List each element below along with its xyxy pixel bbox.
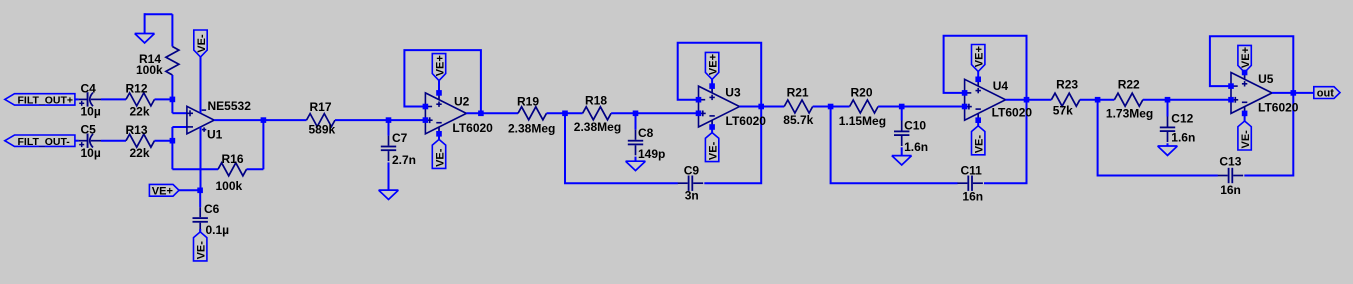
svg-text:R20: R20 — [851, 85, 873, 99]
svg-text:85.7k: 85.7k — [783, 113, 813, 127]
wire — [214, 119, 306, 121]
svg-text:1.6n: 1.6n — [1171, 131, 1195, 145]
svg-text:R17: R17 — [310, 100, 332, 114]
net flag FILT_OUT- — [5, 135, 75, 148]
label LT6020 (U4) — [992, 106, 1033, 120]
wire U4 feedback loop — [944, 36, 1027, 100]
ground — [1158, 146, 1178, 155]
C10 node junction — [899, 104, 905, 110]
wire — [172, 112, 187, 114]
svg-text:R18: R18 — [585, 94, 607, 108]
op-amp U5 LT6020 — [1231, 72, 1274, 114]
svg-text:1.6n: 1.6n — [904, 140, 928, 154]
wire — [977, 72, 979, 80]
wire — [155, 98, 173, 100]
net flag VE- (below U5) — [1238, 121, 1252, 150]
ground — [892, 156, 912, 165]
svg-text:FILT_OUT+: FILT_OUT+ — [18, 95, 74, 107]
wire C13 feedback loop (right) — [1244, 93, 1293, 176]
svg-text:R12: R12 — [126, 82, 148, 96]
svg-text:589k: 589k — [309, 123, 336, 137]
svg-text:C9: C9 — [684, 164, 700, 178]
capacitor C7 — [381, 131, 416, 167]
svg-text:R21: R21 — [787, 85, 809, 99]
U2 in+ pin junction — [423, 117, 429, 123]
wire U2 feedback loop — [404, 50, 481, 113]
wire — [200, 127, 202, 190]
capacitor C4 — [79, 81, 101, 118]
node R21/R20 junction — [828, 104, 834, 110]
svg-text:1.73Meg: 1.73Meg — [1106, 106, 1153, 120]
svg-text:10µ: 10µ — [81, 105, 101, 119]
resistor R12 — [126, 82, 155, 119]
resistor R23 — [1051, 77, 1080, 117]
resistor R17 — [307, 100, 336, 137]
net flag VE+ (above U3) — [705, 52, 719, 79]
wire — [466, 112, 518, 114]
svg-text:U5: U5 — [1258, 72, 1274, 86]
wire — [101, 140, 126, 142]
capacitor C12 — [1160, 112, 1196, 145]
wire C11 feedback loop (left) — [831, 107, 958, 184]
wire — [1244, 113, 1246, 121]
wire — [878, 106, 965, 108]
svg-text:100k: 100k — [216, 179, 243, 193]
wire C11 feedback loop (right) — [984, 100, 1027, 184]
wire U3 feedback loop — [678, 43, 762, 107]
svg-text:1.15Meg: 1.15Meg — [839, 114, 886, 128]
U4 in+ pin junction — [962, 104, 968, 110]
svg-text:16n: 16n — [962, 190, 983, 204]
svg-text:VE-: VE- — [1240, 130, 1252, 149]
label LT6020 (U3) — [726, 114, 767, 128]
label LT6020 (U2) — [452, 121, 493, 135]
svg-text:R23: R23 — [1056, 77, 1078, 91]
wire — [438, 134, 440, 140]
ground — [626, 161, 646, 170]
svg-text:C4: C4 — [81, 81, 97, 95]
U3 V+ pin junction — [709, 83, 715, 89]
svg-text:10µ: 10µ — [81, 146, 101, 160]
wire — [172, 126, 187, 128]
wire C9 feedback loop (left) — [565, 113, 678, 183]
net flag VE- (below U3) — [705, 133, 719, 162]
wire — [388, 120, 390, 136]
svg-text:R16: R16 — [222, 152, 244, 166]
wire — [977, 120, 979, 126]
C8 node junction — [633, 111, 639, 117]
net flag VE+ — [149, 184, 179, 197]
svg-text:VE+: VE+ — [152, 185, 173, 197]
node R23/R22 junction — [1095, 97, 1101, 103]
wire — [1006, 99, 1052, 101]
wire — [1167, 100, 1169, 117]
U3 in- pin junction — [696, 97, 702, 103]
svg-text:VE-: VE- — [708, 141, 720, 160]
wire — [711, 79, 713, 86]
U5 output junction — [1291, 90, 1297, 96]
U2 V- pin junction — [436, 131, 442, 137]
svg-text:VE-: VE- — [196, 241, 208, 260]
node R19/R18 junction — [562, 111, 568, 117]
wire — [145, 13, 173, 15]
net flag VE+ (above U2) — [432, 54, 446, 81]
svg-text:C12: C12 — [1171, 112, 1193, 126]
wire U5 feedback loop — [1210, 36, 1293, 93]
svg-text:VE+: VE+ — [1240, 47, 1252, 68]
svg-text:VE-: VE- — [974, 135, 986, 154]
capacitor C8 — [628, 126, 666, 161]
U5 V- pin junction — [1242, 111, 1248, 117]
svg-text:C6: C6 — [204, 202, 220, 216]
svg-text:U3: U3 — [725, 85, 741, 99]
svg-text:U2: U2 — [454, 95, 470, 109]
svg-text:C10: C10 — [904, 119, 926, 133]
net flag FILT_OUT+ — [5, 94, 75, 107]
resistor R13 — [126, 123, 155, 160]
wire — [1080, 99, 1115, 101]
svg-text:C11: C11 — [961, 163, 983, 177]
resistor R14 — [136, 47, 179, 78]
wire — [635, 113, 637, 130]
wire — [75, 98, 79, 100]
svg-text:3n: 3n — [685, 189, 699, 203]
svg-text:0.1µ: 0.1µ — [206, 223, 230, 237]
capacitor C5 — [79, 122, 101, 159]
op-amp U1 NE5532 — [187, 99, 251, 142]
wire — [172, 168, 218, 170]
wire — [262, 120, 264, 169]
wire — [101, 98, 126, 100]
capacitor C6 — [193, 202, 230, 237]
wire — [547, 112, 583, 114]
ground — [135, 34, 155, 43]
U3 V- pin junction — [709, 124, 715, 130]
wire — [171, 141, 173, 170]
wire — [388, 162, 390, 190]
net flag VE+ (above U5) — [1238, 45, 1252, 72]
wire C13 feedback loop (left) — [1098, 100, 1218, 176]
svg-text:LT6020: LT6020 — [1258, 100, 1299, 114]
svg-text:100k: 100k — [136, 63, 163, 77]
ground — [379, 190, 399, 199]
net flag VE+ (above U4) — [972, 45, 986, 72]
svg-text:VE+: VE+ — [434, 55, 446, 76]
wire — [247, 168, 264, 170]
capacitor C11 — [957, 163, 983, 203]
svg-text:22k: 22k — [130, 105, 150, 119]
U4 V+ pin junction — [975, 77, 981, 83]
op-amp U2 LT6020 — [425, 93, 469, 134]
U2 in- pin junction — [423, 104, 429, 110]
svg-text:2.38Meg: 2.38Meg — [574, 120, 621, 134]
svg-text:C8: C8 — [638, 126, 654, 140]
op-amp U3 LT6020 — [699, 85, 741, 127]
wire — [171, 127, 173, 141]
node A junction — [170, 97, 176, 103]
wire — [438, 81, 440, 93]
wire — [144, 13, 146, 33]
wire C9 feedback loop (right) — [704, 107, 761, 184]
U4 in- pin junction — [962, 90, 968, 96]
svg-text:NE5532: NE5532 — [208, 99, 252, 113]
wire — [155, 140, 173, 142]
U2 output junction — [478, 111, 484, 117]
U3 output junction — [758, 104, 764, 110]
C12 node junction — [1165, 97, 1171, 103]
U3 in+ pin junction — [696, 111, 702, 117]
svg-text:R22: R22 — [1118, 77, 1140, 91]
svg-text:57k: 57k — [1053, 103, 1073, 117]
wire — [901, 107, 903, 121]
wire — [711, 127, 713, 133]
wire — [740, 106, 785, 108]
wire — [171, 75, 173, 99]
svg-text:R19: R19 — [517, 94, 539, 108]
VE+ node junction — [197, 188, 203, 194]
wire — [1143, 99, 1231, 101]
svg-text:LT6020: LT6020 — [726, 114, 767, 128]
capacitor C10 — [894, 119, 928, 154]
wire — [901, 147, 903, 155]
svg-text:C7: C7 — [392, 131, 408, 145]
wire — [335, 119, 389, 121]
U4 output junction — [1024, 97, 1030, 103]
U4 V- pin junction — [975, 117, 981, 123]
resistor R20 — [839, 85, 886, 128]
wire — [179, 189, 200, 191]
U2 V+ pin junction — [436, 90, 442, 96]
capacitor C9 — [678, 164, 704, 203]
svg-text:VE+: VE+ — [974, 46, 986, 67]
svg-text:VE+: VE+ — [708, 54, 720, 75]
net flag VE- (below C6) — [194, 232, 208, 261]
wire — [1167, 143, 1169, 146]
wire — [813, 106, 850, 108]
C7 node junction — [386, 117, 392, 123]
wire — [635, 157, 637, 162]
svg-text:out: out — [1317, 88, 1334, 100]
net flag out — [1314, 87, 1340, 100]
svg-text:VE-: VE- — [196, 34, 208, 53]
wire — [200, 57, 202, 113]
capacitor C13 — [1218, 155, 1244, 197]
op-amp U4 LT6020 — [965, 79, 1009, 120]
svg-text:22k: 22k — [130, 146, 150, 160]
U5 in- pin junction — [1228, 83, 1234, 89]
net flag VE- (above U1) — [194, 30, 208, 57]
svg-text:VE-: VE- — [434, 148, 446, 167]
resistor R16 — [216, 152, 247, 193]
wire — [171, 14, 173, 46]
resistor R18 — [574, 94, 621, 135]
U5 in+ pin junction — [1228, 97, 1234, 103]
wire — [75, 140, 79, 142]
wire — [389, 119, 426, 121]
wire — [199, 190, 201, 207]
svg-text:C5: C5 — [81, 122, 97, 136]
wire — [1272, 92, 1314, 94]
net flag VE- (below U2) — [432, 139, 446, 168]
wire — [611, 112, 698, 114]
svg-text:LT6020: LT6020 — [452, 121, 493, 135]
net flag VE- (below U4) — [972, 126, 986, 155]
resistor R22 — [1106, 77, 1153, 120]
svg-text:LT6020: LT6020 — [992, 106, 1033, 120]
svg-text:U4: U4 — [993, 79, 1009, 93]
output node junction — [261, 117, 267, 123]
wire — [171, 99, 173, 113]
svg-text:149p: 149p — [638, 147, 665, 161]
resistor R19 — [508, 94, 555, 135]
svg-text:2.38Meg: 2.38Meg — [508, 121, 555, 135]
svg-text:FILT_OUT-: FILT_OUT- — [18, 136, 71, 148]
svg-text:U1: U1 — [207, 128, 223, 142]
wire — [199, 229, 201, 232]
svg-text:C13: C13 — [1219, 155, 1241, 169]
U5 V+ pin junction — [1242, 70, 1248, 76]
node B junction — [170, 138, 176, 144]
resistor R21 — [783, 85, 813, 127]
svg-text:R13: R13 — [126, 123, 148, 137]
svg-text:16n: 16n — [1220, 183, 1241, 197]
svg-text:2.7n: 2.7n — [392, 153, 416, 167]
label LT6020 (U5) — [1258, 100, 1299, 114]
